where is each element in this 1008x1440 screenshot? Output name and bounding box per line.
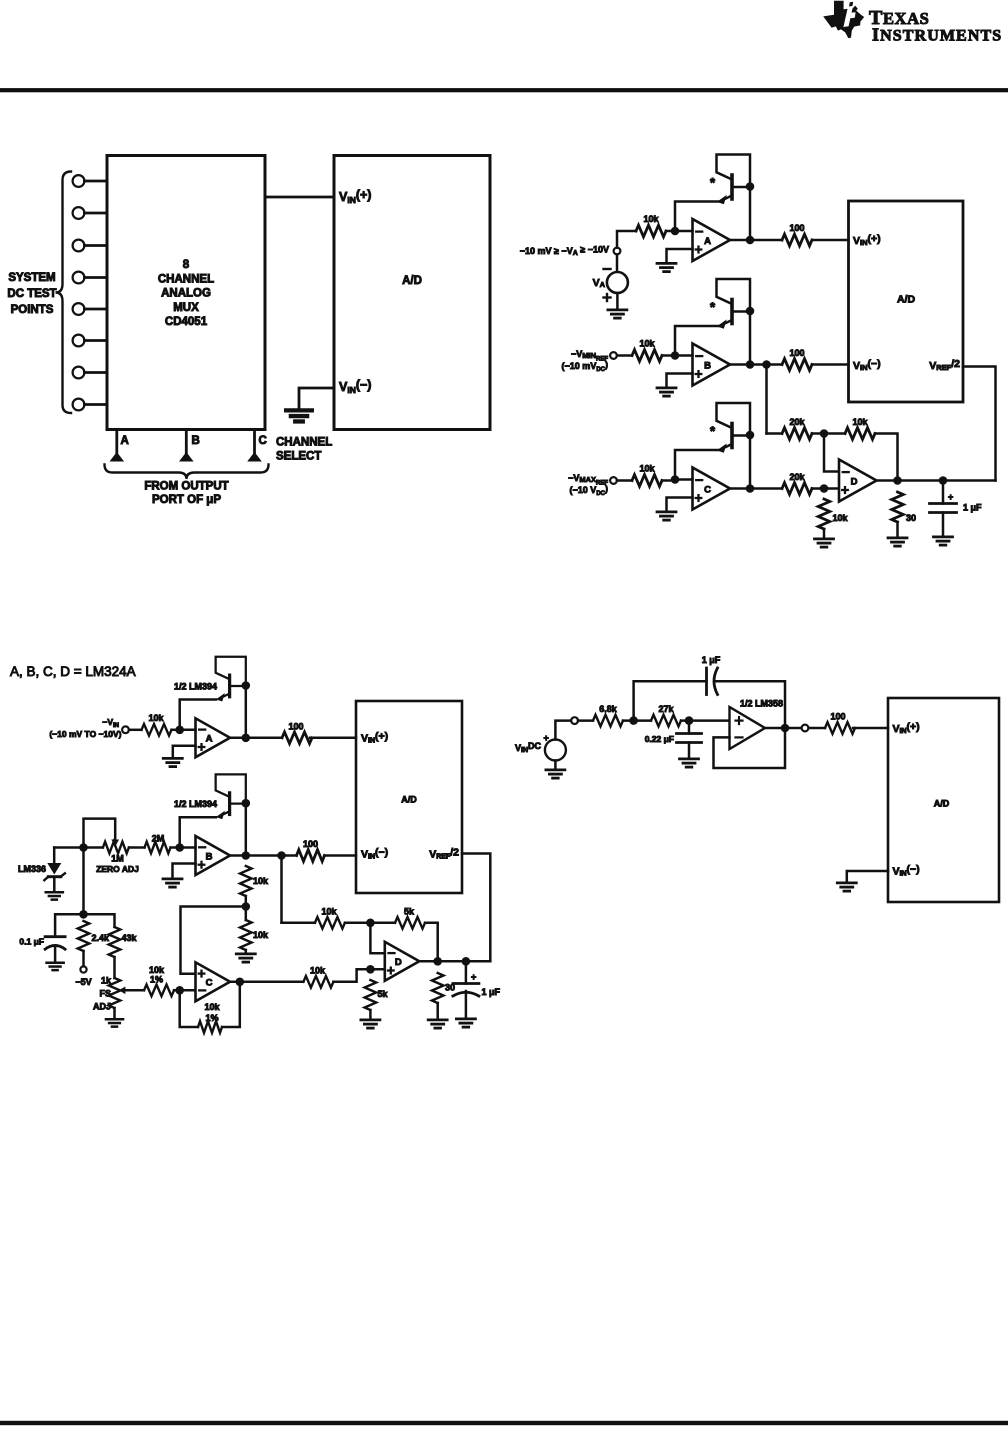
svg-text:B: B [206,851,213,862]
svg-text:ZERO ADJ: ZERO ADJ [96,864,139,874]
svg-text:D: D [851,476,858,487]
svg-text:PORT OF μP: PORT OF μP [152,494,221,506]
svg-text:20k: 20k [789,472,805,482]
svg-text:8: 8 [183,259,190,271]
svg-text:+: + [544,733,549,743]
svg-text:10k: 10k [253,930,269,940]
svg-text:100: 100 [303,839,318,849]
svg-text:43k: 43k [122,933,138,943]
svg-text:1M: 1M [111,854,124,864]
svg-text:C: C [704,484,711,495]
svg-text:+: + [471,972,476,982]
svg-text:1k: 1k [101,976,112,986]
svg-text:D: D [395,957,402,968]
svg-text:FROM OUTPUT: FROM OUTPUT [144,481,228,493]
svg-text:1/2 LM358: 1/2 LM358 [740,699,783,709]
svg-text:5k: 5k [404,907,415,917]
svg-text:100: 100 [789,223,804,233]
svg-text:10k: 10k [321,907,337,917]
svg-text:10k: 10k [639,464,655,474]
svg-text:20k: 20k [789,417,805,427]
svg-text:CHANNEL: CHANNEL [276,437,332,449]
svg-text:C: C [206,978,213,989]
svg-text:A: A [121,435,129,447]
svg-text:B: B [704,360,711,371]
svg-text:10k: 10k [253,876,269,886]
svg-text:30: 30 [906,513,916,523]
svg-text:ANALOG: ANALOG [161,288,211,300]
svg-text:1/2 LM394: 1/2 LM394 [174,799,217,809]
svg-text:100: 100 [830,712,845,722]
svg-text:POINTS: POINTS [11,304,54,316]
svg-text:LM336: LM336 [18,864,46,874]
svg-text:A/D: A/D [897,294,916,306]
svg-text:SYSTEM: SYSTEM [8,272,55,284]
svg-text:100: 100 [789,348,804,358]
svg-text:10k: 10k [833,513,849,523]
svg-text:0.1 μF: 0.1 μF [19,937,44,947]
svg-text:10k: 10k [310,966,326,976]
svg-text:A/D: A/D [934,799,950,809]
svg-text:CHANNEL: CHANNEL [158,273,214,285]
svg-text:A, B, C, D = LM324A: A, B, C, D = LM324A [10,664,136,679]
svg-text:0.22 μF: 0.22 μF [645,734,674,744]
svg-text:1%: 1% [150,975,163,985]
svg-text:10k: 10k [148,713,164,723]
svg-text:A/D: A/D [402,275,422,287]
svg-text:2M: 2M [152,834,165,844]
svg-text:10k: 10k [204,1002,220,1012]
svg-text:FS: FS [99,989,111,999]
svg-text:6.8k: 6.8k [599,704,618,714]
svg-text:5k: 5k [378,989,389,999]
svg-text:10k: 10k [852,417,868,427]
svg-text:INSTRUMENTS: INSTRUMENTS [872,24,1002,44]
svg-text:1 μF: 1 μF [702,655,721,665]
svg-text:(−10 mV TO −10V): (−10 mV TO −10V) [49,729,121,739]
svg-text:1/2 LM394: 1/2 LM394 [174,682,217,692]
svg-text:1 μF: 1 μF [963,503,982,513]
svg-text:+: + [948,492,953,502]
svg-text:SELECT: SELECT [276,451,321,463]
svg-text:10k: 10k [639,339,655,349]
svg-text:10k: 10k [149,965,165,975]
svg-text:A: A [206,734,213,745]
svg-text:−5V: −5V [75,977,91,987]
svg-text:A: A [704,236,711,247]
svg-text:ADJ: ADJ [93,1002,111,1012]
svg-text:A/D: A/D [401,795,417,805]
svg-text:100: 100 [288,722,303,732]
svg-text:1%: 1% [205,1013,218,1023]
svg-text:MUX: MUX [173,302,199,314]
svg-text:C: C [259,435,267,447]
svg-text:10k: 10k [643,214,659,224]
svg-text:B: B [192,435,200,447]
svg-text:DC TEST: DC TEST [7,288,56,300]
svg-text:1 μF: 1 μF [482,987,501,997]
svg-text:27k: 27k [658,704,674,714]
svg-text:CD4051: CD4051 [165,316,208,328]
